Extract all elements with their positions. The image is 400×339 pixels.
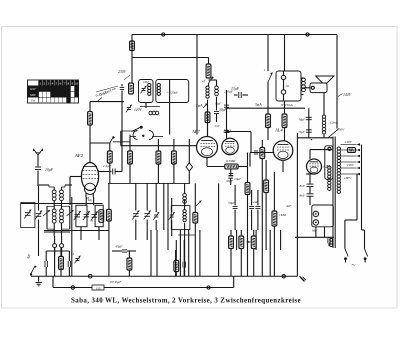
svg-text:190V: 190V: [347, 163, 355, 167]
svg-text:13μF: 13μF: [231, 87, 240, 91]
svg-text:1MΩ: 1MΩ: [279, 213, 287, 217]
svg-text:90·45μF: 90·45μF: [110, 280, 122, 284]
svg-text:0.3MΩ: 0.3MΩ: [226, 159, 236, 163]
svg-text:KW: KW: [30, 87, 35, 91]
svg-text:10μF: 10μF: [234, 177, 242, 181]
svg-text:150: 150: [96, 286, 101, 290]
svg-text:≈ 220μF: ≈ 220μF: [167, 91, 179, 95]
svg-text:50μF: 50μF: [228, 201, 236, 205]
svg-text:AZ1: AZ1: [322, 164, 331, 169]
svg-text:240V: 240V: [345, 140, 353, 144]
svg-text:Mg: Mg: [87, 198, 92, 202]
svg-text:Lg: Lg: [285, 84, 290, 88]
svg-text:Saba, 340 WL, Wechselstrom, 2: Saba, 340 WL, Wechselstrom, 2 Vorkreise,…: [71, 298, 301, 305]
svg-text:180V: 180V: [344, 176, 352, 180]
svg-text:AL4: AL4: [274, 128, 283, 133]
svg-text:1.1μF: 1.1μF: [103, 164, 112, 168]
svg-text:8nF: 8nF: [300, 194, 306, 198]
svg-text:LW: LW: [31, 99, 36, 103]
svg-text:MW: MW: [30, 93, 36, 97]
svg-text:12mA: 12mA: [330, 121, 339, 125]
svg-text:10μF: 10μF: [215, 102, 222, 106]
svg-text:2μF: 2μF: [253, 200, 259, 204]
svg-text:230V: 230V: [118, 70, 127, 74]
svg-text:AF7: AF7: [191, 129, 201, 134]
svg-text:30μF: 30μF: [226, 179, 234, 183]
svg-text:10μF: 10μF: [45, 168, 54, 172]
svg-text:~: ~: [352, 261, 356, 270]
svg-text:140V: 140V: [343, 93, 352, 97]
svg-text:N°25mA: N°25mA: [280, 103, 293, 107]
svg-text:10M: 10M: [143, 80, 149, 84]
svg-text:M: M: [90, 219, 94, 223]
svg-text:10: 10: [75, 81, 79, 85]
svg-text:3mA: 3mA: [255, 103, 262, 107]
svg-text:120V: 120V: [134, 108, 142, 112]
svg-text:8nF: 8nF: [300, 184, 306, 188]
svg-text:AF2: AF2: [74, 153, 84, 158]
svg-text:150V: 150V: [337, 128, 345, 132]
svg-text:45μF: 45μF: [115, 245, 123, 249]
svg-text:41: 41: [71, 252, 75, 256]
svg-text:1nF: 1nF: [215, 124, 220, 128]
svg-text:MμF: MμF: [298, 118, 305, 122]
svg-text:NμF: NμF: [298, 130, 305, 134]
svg-text:E: E: [111, 135, 114, 139]
